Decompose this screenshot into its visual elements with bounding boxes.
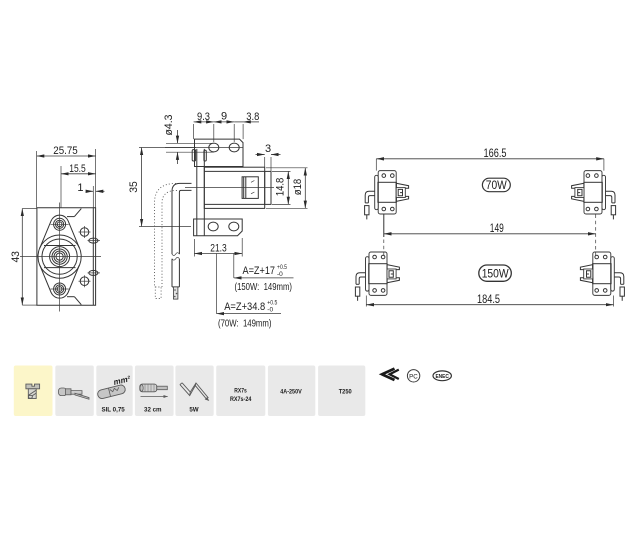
svg-text:1: 1 bbox=[77, 182, 83, 194]
svg-text:SIL 0,75: SIL 0,75 bbox=[101, 406, 125, 413]
svg-text:4A-250V: 4A-250V bbox=[280, 388, 302, 395]
svg-text:(70W: 149mm): (70W: 149mm) bbox=[218, 317, 272, 329]
svg-text:-0: -0 bbox=[277, 271, 283, 278]
svg-text:+0.5: +0.5 bbox=[277, 264, 287, 271]
svg-text:21.3: 21.3 bbox=[210, 242, 227, 254]
svg-text:ø18: ø18 bbox=[292, 179, 304, 196]
svg-text:32 cm: 32 cm bbox=[144, 406, 162, 413]
svg-text:A=Z+34.8: A=Z+34.8 bbox=[224, 301, 265, 313]
svg-text:150W: 150W bbox=[482, 266, 510, 280]
svg-text:+0.5: +0.5 bbox=[267, 300, 277, 307]
svg-text:25.75: 25.75 bbox=[53, 145, 78, 157]
svg-text:T250: T250 bbox=[339, 388, 352, 395]
svg-text:184.5: 184.5 bbox=[477, 294, 500, 306]
svg-text:166.5: 166.5 bbox=[484, 148, 507, 160]
svg-text:9: 9 bbox=[221, 111, 227, 123]
svg-text:(150W: 149mm): (150W: 149mm) bbox=[235, 281, 293, 293]
svg-text:A=Z+17: A=Z+17 bbox=[243, 265, 276, 277]
svg-text:-0: -0 bbox=[267, 307, 273, 314]
svg-text:9.3: 9.3 bbox=[197, 111, 210, 123]
svg-text:5W: 5W bbox=[189, 406, 198, 413]
svg-text:PC: PC bbox=[409, 373, 418, 380]
svg-text:RX7s: RX7s bbox=[234, 388, 247, 395]
svg-text:15.5: 15.5 bbox=[69, 163, 86, 175]
svg-text:3: 3 bbox=[265, 143, 271, 155]
svg-text:35: 35 bbox=[128, 181, 140, 193]
svg-text:ø4.3: ø4.3 bbox=[163, 115, 175, 136]
svg-text:RX7s-24: RX7s-24 bbox=[230, 396, 252, 403]
svg-text:70W: 70W bbox=[486, 178, 508, 192]
svg-text:14.8: 14.8 bbox=[274, 178, 286, 197]
svg-text:149: 149 bbox=[490, 223, 504, 235]
svg-text:3.8: 3.8 bbox=[246, 111, 259, 123]
svg-text:ENEC: ENEC bbox=[435, 374, 449, 380]
